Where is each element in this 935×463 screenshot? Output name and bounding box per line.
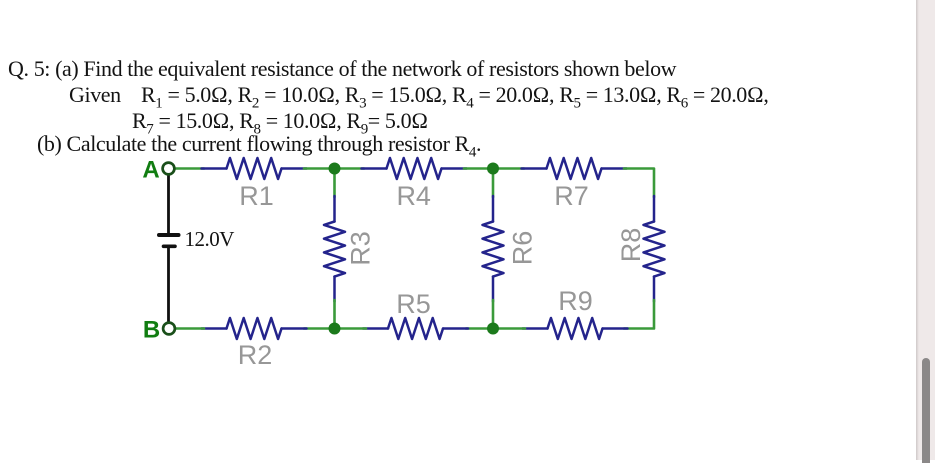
svg-text:A: A xyxy=(142,157,159,184)
svg-text:R8: R8 xyxy=(616,228,646,263)
junction J4 xyxy=(487,323,499,335)
battery wire top black xyxy=(167,175,170,235)
resistor R2 xyxy=(202,318,307,339)
terminal B xyxy=(163,323,175,335)
wire mid vertical J3 green bottom xyxy=(333,300,336,329)
wire mid vertical J1 green top xyxy=(333,169,336,198)
svg-text:R5: R5 xyxy=(396,289,431,319)
resistor R1 xyxy=(202,158,307,179)
battery B1 plate short xyxy=(164,245,176,249)
wire top J2 green xyxy=(464,167,524,170)
junction J1 xyxy=(329,163,341,175)
junction J3 xyxy=(329,323,341,335)
scrollbar track xyxy=(916,0,935,460)
text line 1 xyxy=(8,56,676,82)
resistor R3 xyxy=(324,196,345,302)
resistor R9 xyxy=(523,318,628,339)
resistor R6 xyxy=(483,196,504,302)
wire top J1 green xyxy=(304,167,364,170)
terminal A xyxy=(163,163,175,175)
svg-text:12.0V: 12.0V xyxy=(185,227,235,251)
resistor R5 xyxy=(363,318,468,339)
junction J2 xyxy=(487,163,499,175)
svg-text:R3: R3 xyxy=(346,231,376,266)
resistor R4 xyxy=(362,158,467,179)
scrollbar thumb xyxy=(922,358,931,463)
text line 4 xyxy=(37,131,481,157)
battery wire bottom black xyxy=(167,246,170,322)
svg-text:R2: R2 xyxy=(238,340,273,370)
battery B1 plate long xyxy=(159,233,179,237)
wire mid vertical J4 green bottom xyxy=(492,300,495,329)
svg-text:R6: R6 xyxy=(507,231,537,266)
wire bottom J4 green xyxy=(466,327,525,330)
svg-text:R7: R7 xyxy=(554,181,589,211)
wire bottom B green xyxy=(176,327,204,330)
wire mid vertical J2 green top xyxy=(492,169,495,198)
svg-text:B: B xyxy=(143,317,160,344)
wire top-right corner green xyxy=(624,169,654,198)
svg-text:R9: R9 xyxy=(558,286,593,316)
text line 2 xyxy=(69,82,121,108)
svg-text:R1: R1 xyxy=(239,181,274,211)
wire top A-R1 green xyxy=(176,167,204,170)
wire bottom-right corner green xyxy=(624,300,654,329)
resistor R7 xyxy=(522,158,627,179)
text line 3 xyxy=(132,108,428,134)
resistor R8 xyxy=(644,196,665,302)
svg-text:R4: R4 xyxy=(396,181,431,211)
wire bottom J3 green xyxy=(304,327,366,330)
